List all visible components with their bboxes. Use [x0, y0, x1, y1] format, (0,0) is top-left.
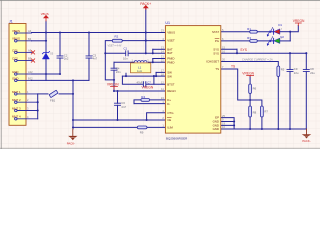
- svg-text:B12: B12: [28, 76, 33, 80]
- pin CC1: [17, 51, 32, 53]
- wire STAT row: [221, 31, 250, 33]
- wire R7 bottom: [261, 117, 263, 129]
- wire VSET row: [122, 40, 165, 42]
- svg-text:R8: R8: [253, 110, 257, 114]
- power port PACK+: [140, 2, 151, 10]
- pin MNT1: [17, 93, 38, 95]
- capacitor C2: [57, 53, 69, 60]
- capacitor C4: [111, 66, 121, 74]
- wire REGN row: [114, 90, 165, 92]
- resistor R2: [108, 35, 123, 48]
- wire PG LED anode: [280, 40, 290, 42]
- IC U1 body: [165, 26, 220, 134]
- wire VREGN top right: [290, 26, 298, 32]
- wire SW row: [122, 75, 165, 77]
- svg-text:MNT 4: MNT 4: [12, 115, 21, 119]
- svg-text:J1: J1: [9, 19, 13, 23]
- svg-text:A12: A12: [28, 70, 33, 74]
- inductor L1: [131, 60, 151, 73]
- resistor R7: [261, 106, 269, 117]
- svg-text:22u: 22u: [310, 71, 315, 75]
- PG overline: [215, 38, 219, 40]
- wire MNT to FB1: [38, 93, 48, 95]
- svg-text:1uH: 1uH: [137, 69, 142, 73]
- wire MNT bus vertical: [37, 94, 39, 119]
- svg-text:R9: R9: [140, 130, 144, 134]
- wire BAT row with C1 gap: [105, 52, 125, 54]
- svg-text:R3: R3: [247, 36, 251, 40]
- capacitor C6: [115, 101, 127, 109]
- IC right pin numbers: [222, 28, 225, 129]
- wire D+ row: [149, 99, 165, 101]
- pin MNT3: [17, 110, 38, 112]
- IC left pin names: [167, 31, 175, 130]
- capacitor C7: [136, 80, 151, 86]
- wire ILIM row left: [73, 126, 137, 128]
- wire OTG L: [147, 113, 166, 120]
- svg-text:GND: GND: [12, 70, 18, 74]
- wire PACK- vertical: [72, 80, 74, 129]
- svg-text:SW: SW: [167, 74, 172, 78]
- wire IC GND stubs: [221, 118, 234, 129]
- wire C6 vertical: [117, 91, 119, 103]
- wire SYS merge vertical: [236, 49, 238, 53]
- svg-text:VBUS: VBUS: [12, 37, 20, 41]
- wire D- row: [134, 103, 165, 105]
- pin CC2: [17, 60, 32, 62]
- wire SW pin17 stub: [156, 71, 165, 73]
- capacitor C9: [287, 67, 299, 75]
- wire PMID pin21 stub: [153, 58, 166, 60]
- wire PMID merge vertical: [152, 59, 154, 63]
- svg-text:CE: CE: [167, 118, 171, 122]
- svg-text:MNT 1: MNT 1: [12, 90, 21, 94]
- ferrite bead FB1: [49, 90, 58, 102]
- wire R4 left hook to D-: [134, 100, 141, 104]
- svg-text:ILIM: ILIM: [167, 126, 173, 130]
- svg-text:D1: D1: [278, 23, 282, 27]
- LED D1 red: [267, 23, 283, 36]
- power port VREGN top right: [293, 19, 305, 26]
- svg-text:VREGN: VREGN: [242, 71, 254, 75]
- ground PACK- left: [67, 129, 78, 145]
- svg-text:OTG: OTG: [167, 111, 174, 115]
- wire TS node to R7: [250, 94, 262, 107]
- svg-text:VBUS: VBUS: [167, 31, 175, 35]
- wire PACK+ vertical: [145, 8, 147, 33]
- svg-text:VSET: VSET: [167, 39, 175, 43]
- wire GND row 1: [32, 73, 61, 75]
- svg-text:CHARGE CURRENT = 2A: CHARGE CURRENT = 2A: [242, 57, 273, 61]
- power port VBUS: [41, 12, 49, 21]
- wire SW merge vertical: [155, 72, 157, 76]
- no-ERC cross on CC1: [31, 51, 34, 54]
- svg-text:4n7: 4n7: [93, 57, 98, 61]
- svg-text:ICHGSET: ICHGSET: [206, 60, 219, 64]
- svg-text:PACK-: PACK-: [67, 141, 75, 145]
- svg-text:PACK-: PACK-: [302, 139, 310, 143]
- wire BTST C7 loop: [122, 76, 143, 84]
- power port VREGN at TS divider: [242, 71, 254, 76]
- resistor R3: [247, 36, 257, 42]
- sheet border: [0, 0, 320, 149]
- IC right pin names: [206, 30, 220, 131]
- LED D2 green: [267, 35, 284, 45]
- svg-text:VREGN: VREGN: [107, 83, 119, 87]
- wire R2 left lead hook: [105, 41, 114, 80]
- wire R8 bottom: [249, 117, 251, 129]
- resistor R6: [249, 84, 257, 94]
- svg-text:R6: R6: [253, 86, 257, 90]
- pin MNT4: [17, 118, 38, 120]
- wire SYS pin15 stub: [221, 48, 237, 50]
- capacitor C1: [123, 46, 128, 60]
- wire BAT pin13 stub: [153, 48, 166, 50]
- wire CE row: [73, 119, 165, 121]
- svg-text:R5: R5: [281, 67, 285, 71]
- wire C8 vertical: [305, 53, 307, 69]
- wire C7 to SW vertical: [153, 76, 155, 84]
- svg-text:47uF: 47uF: [136, 80, 142, 84]
- wire VSET-BAT vertical: [145, 33, 147, 54]
- svg-text:STAT: STAT: [212, 30, 219, 34]
- svg-text:U1: U1: [165, 21, 170, 25]
- resistor R5: [277, 66, 285, 77]
- svg-text:VREGN: VREGN: [142, 86, 154, 90]
- connector J1 body: [9, 24, 26, 126]
- wire STAT LED anode: [280, 31, 290, 33]
- svg-text:VBUS: VBUS: [12, 29, 20, 33]
- wire C4 vertical: [113, 62, 115, 68]
- pin VBUS A4: [17, 32, 32, 34]
- wire VBUS port vertical: [45, 21, 47, 80]
- svg-text:R1: R1: [247, 27, 251, 31]
- wire C3 vertical: [88, 33, 90, 56]
- svg-text:GND: GND: [213, 127, 219, 131]
- wire C9 vertical: [289, 53, 291, 69]
- wire VBUS B4 short: [32, 40, 47, 42]
- svg-text:MNT 2: MNT 2: [12, 98, 21, 102]
- resistor R1: [247, 27, 257, 33]
- svg-text:10n: 10n: [123, 57, 128, 61]
- wire GND row 2: [32, 79, 90, 81]
- capacitor C8: [303, 67, 315, 75]
- svg-text:C1: C1: [124, 46, 128, 50]
- svg-text:TS: TS: [215, 67, 219, 71]
- svg-text:4n7: 4n7: [121, 105, 126, 109]
- CE overline: [167, 117, 171, 119]
- svg-text:B4: B4: [28, 37, 32, 41]
- wire ICHGSET row: [221, 62, 278, 67]
- resistor R8: [249, 106, 257, 117]
- svg-text:REGN: REGN: [167, 89, 175, 93]
- svg-text:R4: R4: [141, 95, 145, 99]
- wire TS hook: [221, 69, 250, 100]
- pin VBUS B4: [17, 40, 32, 42]
- IC left pin numbers: [161, 29, 164, 128]
- svg-text:BQ25606RGER: BQ25606RGER: [166, 136, 188, 140]
- resistor R9: [137, 126, 147, 134]
- svg-text:22u: 22u: [294, 71, 299, 75]
- svg-text:CC2: CC2: [12, 56, 18, 60]
- pin MNT2: [17, 101, 38, 103]
- power port VREGN middle: [107, 83, 119, 89]
- wire FB1 to GND vertical: [59, 93, 73, 95]
- pin GND B12: [17, 79, 32, 81]
- svg-text:BTST: BTST: [167, 82, 175, 86]
- wire PG row: [221, 40, 250, 42]
- wire PMID row: [114, 61, 134, 63]
- svg-text:R7: R7: [264, 109, 268, 113]
- svg-text:SYS: SYS: [213, 51, 219, 55]
- capacitor C3: [86, 53, 98, 60]
- svg-text:VBUS: VBUS: [41, 12, 49, 16]
- svg-text:VREGN: VREGN: [293, 19, 305, 23]
- wire VBUS row: [32, 32, 166, 34]
- TVS diode D5: [42, 51, 53, 59]
- svg-text:2u2: 2u2: [64, 57, 69, 61]
- pin GND A12: [17, 73, 32, 75]
- wire L1 bottom stub: [125, 73, 127, 76]
- svg-text:GND: GND: [12, 76, 18, 80]
- resistor R4: [141, 95, 150, 101]
- svg-text:VSET = 4.4V: VSET = 4.4V: [108, 44, 122, 47]
- svg-text:22n: 22n: [116, 70, 121, 74]
- svg-text:BAT: BAT: [167, 51, 173, 55]
- svg-text:PMID: PMID: [167, 60, 174, 64]
- svg-text:C7: C7: [147, 80, 151, 84]
- wire VREGN TS stub: [249, 77, 251, 85]
- wire ILIM row right: [147, 126, 165, 128]
- wire LED cathode vertical: [289, 32, 291, 41]
- wire BAT merge vertical: [152, 49, 154, 53]
- connector pin names: [12, 29, 21, 119]
- svg-text:SYS: SYS: [240, 48, 247, 52]
- svg-text:MNT 3: MNT 3: [12, 106, 21, 110]
- wire C2 vertical: [59, 33, 61, 56]
- sheet background: [0, 0, 320, 149]
- connector pin designators: [27, 29, 33, 119]
- wire GND rail bottom right: [234, 128, 306, 130]
- ground PACK- right: [302, 129, 311, 143]
- wire SYS rail: [221, 52, 306, 54]
- wire BTST right: [146, 83, 165, 85]
- no-ERC cross on CC2: [31, 59, 34, 62]
- wire R5 bottom: [277, 77, 279, 130]
- svg-text:R2: R2: [115, 35, 119, 39]
- svg-text:CC1: CC1: [12, 48, 18, 52]
- svg-text:FB1: FB1: [50, 99, 56, 103]
- svg-text:D-: D-: [167, 102, 170, 106]
